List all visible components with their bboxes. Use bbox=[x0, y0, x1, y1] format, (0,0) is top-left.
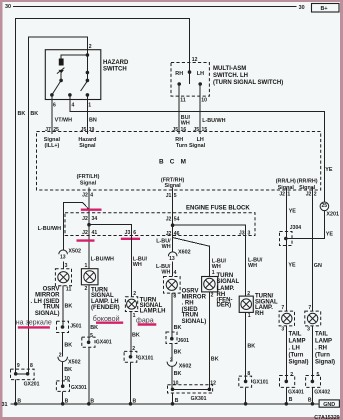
svg-text:YE: YE bbox=[289, 209, 297, 215]
svg-text:SIGNAL): SIGNAL) bbox=[35, 311, 60, 317]
svg-text:J2: J2 bbox=[279, 191, 285, 197]
wire GX101 rear to ground bus bbox=[245, 387, 247, 404]
svg-text:BK: BK bbox=[65, 304, 73, 310]
svg-text:13: 13 bbox=[60, 255, 66, 261]
wire BN hazard pin1 to BCM J5|19 bbox=[87, 95, 96, 134]
wire YE RR/LH: BCM J2|1 to tail lamp LH bbox=[286, 188, 296, 312]
BCM pin J2|2 (RR/RH) Signal bbox=[297, 178, 318, 197]
mirror RH lamp (OSRV MIRROR RH) bbox=[164, 277, 207, 325]
svg-text:J7: J7 bbox=[45, 127, 51, 133]
svg-text:Signal: Signal bbox=[299, 185, 316, 191]
wire FRT/RH: BCM J1|5 through fuse J2|54 to J2|46 bbox=[156, 188, 179, 252]
svg-text:LAMP.LH: LAMP.LH bbox=[140, 308, 166, 314]
connector X602 pin 13 bbox=[168, 250, 190, 262]
svg-text:BK: BK bbox=[18, 111, 26, 117]
svg-text:BK: BK bbox=[247, 344, 255, 350]
svg-text:VT/WH: VT/WH bbox=[55, 118, 72, 124]
russian note фара bbox=[136, 316, 154, 324]
svg-text:MIRROR: MIRROR bbox=[182, 294, 207, 300]
svg-text:13: 13 bbox=[169, 256, 175, 262]
svg-text:3: 3 bbox=[248, 231, 251, 237]
svg-text:3: 3 bbox=[65, 263, 68, 269]
svg-text:2: 2 bbox=[314, 191, 317, 197]
svg-text:16: 16 bbox=[181, 127, 187, 133]
svg-text:7: 7 bbox=[308, 305, 311, 311]
svg-text:8: 8 bbox=[173, 293, 176, 299]
mirror LH lamp (OSRV MIRROR LH) bbox=[30, 269, 71, 317]
svg-text:SWITCH: SWITCH bbox=[103, 67, 127, 73]
svg-text:B: B bbox=[289, 397, 293, 403]
svg-text:GX402: GX402 bbox=[314, 390, 330, 396]
wire X502 to mirror LH pin 3 bbox=[64, 261, 68, 269]
svg-text:WH: WH bbox=[162, 244, 171, 250]
svg-text:YE: YE bbox=[288, 262, 296, 268]
svg-text:J2: J2 bbox=[82, 192, 88, 198]
svg-text:41: 41 bbox=[92, 230, 98, 236]
svg-text:J2: J2 bbox=[166, 217, 172, 223]
svg-text:(ILL+): (ILL+) bbox=[44, 143, 59, 149]
highlighter mark under J2|41 bbox=[77, 239, 95, 241]
fuse block internal bus right (J2|54 junction to J3|3) bbox=[173, 225, 251, 236]
hazard switch box bbox=[45, 44, 129, 99]
wire L-BU/WH J3|3 to turn signal lamp RH bbox=[246, 236, 263, 298]
svg-text:46: 46 bbox=[174, 231, 180, 237]
wire BK bus left (to GX201 pin 9) bbox=[16, 18, 190, 373]
wire BU/WH multi-asm pin11 to BCM J5|16 bbox=[179, 84, 190, 134]
svg-text:X201: X201 bbox=[326, 211, 339, 217]
wire X602 to mirror RH pin 4 bbox=[156, 262, 177, 277]
svg-text:RH: RH bbox=[175, 71, 183, 77]
svg-text:GX301: GX301 bbox=[191, 396, 207, 402]
svg-text:TAIL: TAIL bbox=[315, 332, 328, 338]
svg-text:SIGNAL: SIGNAL bbox=[91, 293, 114, 299]
wire branch to X502 (mirror LH feed) bbox=[38, 202, 89, 250]
svg-text:GX201: GX201 bbox=[24, 381, 40, 387]
ground GX402 bbox=[306, 376, 331, 396]
connector X502 pin 2 bbox=[58, 352, 81, 365]
highlighter underline фара bbox=[138, 323, 157, 325]
svg-text:L-BU/WH: L-BU/WH bbox=[202, 118, 225, 124]
svg-text:GX401: GX401 bbox=[288, 390, 304, 396]
ground GX101 (rear) bbox=[239, 376, 269, 387]
BCM box bbox=[37, 132, 321, 191]
node 31 ground bus bbox=[2, 402, 320, 408]
svg-text:8: 8 bbox=[30, 363, 33, 369]
BCM pin J1|5 (FRT/RH) Signal bbox=[161, 177, 185, 198]
svg-text:SIGNAL): SIGNAL) bbox=[182, 319, 207, 325]
BCM pin J2|4 (FRT/LH) Signal bbox=[77, 174, 100, 198]
svg-text:BK: BK bbox=[64, 367, 72, 373]
wire BK mirror RH pin 8 to J601 bbox=[172, 293, 182, 339]
svg-text:GND: GND bbox=[323, 402, 335, 408]
B+ box bbox=[312, 4, 340, 13]
wire BK J501 to X502 pin 2 bbox=[63, 333, 73, 357]
svg-text:30: 30 bbox=[299, 5, 305, 11]
svg-text:6: 6 bbox=[53, 103, 56, 109]
svg-text:4: 4 bbox=[72, 103, 75, 109]
svg-text:25: 25 bbox=[321, 203, 327, 209]
svg-text:Signal): Signal) bbox=[289, 360, 309, 366]
svg-text:31: 31 bbox=[2, 402, 8, 408]
svg-text:X502: X502 bbox=[68, 360, 81, 366]
wire tail lamp RH to GX402 bbox=[312, 326, 319, 382]
svg-text:(Turn: (Turn bbox=[289, 353, 304, 359]
svg-text:5: 5 bbox=[174, 193, 177, 199]
BCM pin J5|16 RH Turn Signal bbox=[172, 127, 186, 143]
svg-text:5: 5 bbox=[90, 333, 93, 339]
svg-text:Signal): Signal) bbox=[315, 360, 335, 366]
off-page connector X201 (25) bbox=[320, 202, 339, 217]
svg-text:BK: BK bbox=[64, 342, 72, 348]
svg-text:DER): DER) bbox=[217, 303, 232, 309]
svg-text:GX401: GX401 bbox=[96, 339, 112, 345]
svg-text:X502: X502 bbox=[68, 248, 81, 254]
svg-text:34: 34 bbox=[92, 216, 98, 222]
svg-text:4: 4 bbox=[90, 192, 93, 198]
wire BK fender RH pin 2 to GX301 pin 12 bbox=[209, 292, 218, 389]
svg-text:фара: фара bbox=[136, 316, 154, 324]
svg-text:OSRV: OSRV bbox=[43, 286, 60, 292]
wire BK mirror LH pin 11 to J501 bbox=[63, 286, 72, 327]
svg-text:GX101: GX101 bbox=[253, 380, 269, 386]
BCM pin J2|1 (RR/LH) Signal bbox=[276, 178, 296, 197]
wire GX101 to ground bus bbox=[131, 362, 137, 404]
svg-text:9: 9 bbox=[17, 363, 20, 369]
connector X502 pin 13 bbox=[59, 248, 81, 260]
svg-text:(TURN SIGNAL SWITCH): (TURN SIGNAL SWITCH) bbox=[213, 80, 283, 86]
svg-text:19: 19 bbox=[89, 127, 95, 133]
svg-text:7: 7 bbox=[281, 305, 284, 311]
svg-text:YE: YE bbox=[325, 167, 333, 173]
svg-text:SWITCH. LH: SWITCH. LH bbox=[213, 73, 248, 79]
wire YE J304 to X201 bbox=[286, 211, 334, 239]
svg-text:2: 2 bbox=[85, 286, 88, 292]
svg-text:2: 2 bbox=[132, 346, 135, 352]
node 30 B+ top rail bbox=[5, 4, 305, 11]
wire BK J601 to X602 pin 2 bbox=[172, 344, 182, 362]
ground GX301 (rear) bbox=[168, 380, 217, 402]
multi-asm switch box (turn signal switch) bbox=[171, 57, 283, 103]
svg-text:WH: WH bbox=[161, 270, 170, 276]
svg-text:J2: J2 bbox=[166, 231, 172, 237]
wire YE label right of BCM edge bbox=[325, 167, 333, 173]
connector X602 pin 2 bbox=[167, 357, 191, 369]
svg-text:MULTI-ASM: MULTI-ASM bbox=[213, 66, 246, 72]
svg-text:TAIL: TAIL bbox=[289, 332, 302, 338]
wire L-BU/WH J3|6 to turn signal lamp LH bbox=[132, 236, 148, 298]
svg-text:Turn Signal: Turn Signal bbox=[176, 143, 206, 149]
svg-text:J2: J2 bbox=[82, 216, 88, 222]
svg-text:ENGINE FUSE BLOCK: ENGINE FUSE BLOCK bbox=[186, 206, 250, 212]
svg-text:WH: WH bbox=[248, 263, 257, 269]
fender LH turn signal lamp bbox=[81, 263, 119, 311]
wire BK fender LH pin 2 to GX401 bbox=[89, 285, 98, 343]
svg-text:C7A15329: C7A15329 bbox=[314, 415, 339, 420]
wire branch to fender RH lamp bbox=[173, 238, 227, 277]
svg-text:J3: J3 bbox=[125, 230, 131, 236]
svg-text:11: 11 bbox=[66, 286, 72, 292]
highlighter mark over J2|34 bbox=[81, 208, 102, 210]
hazard switch internals bbox=[50, 53, 91, 108]
highlighter mark under J3|6 bbox=[121, 238, 140, 240]
ground GX101 bbox=[124, 351, 153, 362]
fender RH turn signal lamp bbox=[202, 273, 240, 309]
svg-text:J1: J1 bbox=[166, 193, 172, 199]
wire BK X502 to GX301 pin 10 bbox=[63, 362, 72, 387]
svg-text:1: 1 bbox=[287, 191, 290, 197]
wire BK lamp RH to GX101 bbox=[246, 312, 256, 381]
wire GX402 to ground bus bbox=[308, 387, 313, 403]
svg-text:GX101: GX101 bbox=[138, 356, 154, 362]
turn signal lamp LH (rear) bbox=[125, 297, 165, 319]
svg-text:. RH: . RH bbox=[315, 346, 327, 352]
turn signal lamp RH (rear) bbox=[239, 294, 278, 319]
svg-text:J2: J2 bbox=[82, 230, 88, 236]
splice J304 bbox=[280, 225, 302, 246]
svg-text:J304: J304 bbox=[290, 225, 301, 231]
wire FRT/LH: BCM J2|4 through fuse J2|34 to J2|41 bbox=[82, 188, 114, 269]
ground GX201 bbox=[11, 363, 40, 388]
svg-text:11: 11 bbox=[180, 98, 186, 104]
wire RR/RH: BCM J2|2 to tail lamp RH bbox=[312, 188, 322, 312]
svg-text:4: 4 bbox=[174, 270, 177, 276]
svg-text:1: 1 bbox=[212, 270, 215, 276]
wire BK X602 to GX301 pin 10 bbox=[172, 366, 182, 389]
svg-text:1: 1 bbox=[88, 103, 91, 109]
svg-text:MIRROR: MIRROR bbox=[35, 292, 60, 298]
svg-text:30: 30 bbox=[5, 4, 11, 10]
svg-text:L-BU/WH: L-BU/WH bbox=[91, 256, 114, 262]
svg-text:J501: J501 bbox=[70, 323, 81, 329]
wire VT/WH hazard pin6 to BCM J7|25 bbox=[52, 95, 72, 134]
svg-text:12: 12 bbox=[210, 380, 216, 386]
svg-text:BK: BK bbox=[174, 350, 182, 356]
svg-text:B: B bbox=[308, 398, 312, 404]
svg-text:1: 1 bbox=[248, 313, 251, 319]
svg-text:B C M: B C M bbox=[159, 158, 188, 165]
engine fuse block box bbox=[65, 206, 255, 236]
svg-text:15: 15 bbox=[202, 127, 208, 133]
svg-text:(RR/RH): (RR/RH) bbox=[297, 178, 318, 184]
svg-text:BK: BK bbox=[30, 111, 38, 117]
wire L-BU/WH multi-asm pin10 to BCM J5|15 bbox=[200, 84, 225, 134]
fuse block internal bus left (J2|34 junction to J3|6) bbox=[89, 225, 136, 237]
svg-text:B: B bbox=[133, 399, 137, 405]
svg-text:. RH: . RH bbox=[182, 301, 194, 307]
svg-text:BK: BK bbox=[90, 325, 98, 331]
svg-text:(Turn: (Turn bbox=[315, 353, 330, 359]
svg-text:RH: RH bbox=[255, 311, 264, 317]
svg-text:10: 10 bbox=[173, 380, 179, 386]
svg-text:GN: GN bbox=[314, 263, 322, 269]
svg-text:J601: J601 bbox=[178, 338, 189, 344]
svg-text:Signal: Signal bbox=[79, 143, 96, 149]
svg-text:2: 2 bbox=[211, 293, 214, 299]
russian note боковой bbox=[93, 315, 120, 323]
BCM pin J5|15 LH Turn Signal bbox=[176, 127, 207, 149]
svg-text:(FENDER): (FENDER) bbox=[91, 305, 120, 311]
GND box bbox=[319, 400, 339, 408]
svg-text:B: B bbox=[90, 399, 94, 405]
svg-text:GX301: GX301 bbox=[71, 385, 87, 391]
highlighter underline боковой bbox=[96, 322, 123, 324]
ground GX301 bbox=[56, 381, 87, 392]
svg-text:BK: BK bbox=[174, 371, 182, 377]
tail lamp RH (turn signal) bbox=[305, 305, 335, 366]
BCM pin J7|25 Signal (ILL+) bbox=[44, 127, 61, 149]
svg-text:2: 2 bbox=[59, 352, 62, 358]
svg-text:3: 3 bbox=[307, 326, 310, 332]
svg-text:10: 10 bbox=[201, 98, 207, 104]
svg-text:B: B bbox=[175, 398, 179, 404]
svg-text:25: 25 bbox=[53, 127, 59, 133]
svg-text:BK: BK bbox=[132, 332, 140, 338]
svg-text:BK: BK bbox=[174, 325, 182, 331]
svg-text:J2: J2 bbox=[306, 191, 312, 197]
BCM pin J5|19 Hazard Signal bbox=[78, 127, 96, 149]
wire BK lamp LH to GX101 bbox=[131, 312, 140, 357]
svg-text:B+: B+ bbox=[321, 6, 328, 12]
wire GX301 to ground bus bbox=[63, 391, 69, 404]
svg-text:LH: LH bbox=[197, 71, 204, 77]
svg-text:WH: WH bbox=[133, 262, 142, 268]
svg-text:X602: X602 bbox=[178, 250, 191, 256]
wire tail lamp LH to GX401 bbox=[286, 326, 293, 382]
svg-text:YE: YE bbox=[326, 232, 334, 238]
svg-text:BK: BK bbox=[211, 357, 219, 363]
wire GX401 rear to ground bus bbox=[286, 387, 293, 403]
russian note на зеркале bbox=[16, 319, 52, 327]
ground GX401 bbox=[82, 337, 112, 347]
wire BK bus 2 (to GX201 pin 8, feeds hazard pin 2) bbox=[29, 37, 88, 374]
svg-text:SIGNAL: SIGNAL bbox=[217, 279, 240, 285]
splice J501 bbox=[57, 321, 82, 332]
svg-text:TRUN: TRUN bbox=[43, 305, 60, 311]
svg-text:Signal: Signal bbox=[80, 181, 97, 187]
svg-text:WH: WH bbox=[181, 120, 190, 126]
svg-text:J5: J5 bbox=[172, 127, 178, 133]
svg-text:TRUN: TRUN bbox=[182, 313, 199, 319]
highlighter underline на зеркале bbox=[18, 326, 50, 328]
wire GX201 to ground bus bbox=[16, 380, 22, 405]
wire hazard pin4 to off-page connector X201 bbox=[70, 95, 325, 202]
tail lamp LH (turn signal) bbox=[279, 305, 308, 366]
svg-text:3: 3 bbox=[281, 326, 284, 332]
svg-text:2: 2 bbox=[89, 44, 92, 50]
svg-text:(FRT/LH): (FRT/LH) bbox=[77, 174, 100, 180]
document number C7A15329 bbox=[314, 415, 339, 420]
svg-text:LAMP: LAMP bbox=[315, 339, 332, 345]
svg-text:BN: BN bbox=[89, 118, 97, 124]
svg-text:54: 54 bbox=[174, 217, 180, 223]
wire GX401 to ground bus bbox=[89, 347, 95, 404]
svg-text:HAZARD: HAZARD bbox=[103, 60, 129, 66]
svg-text:J5: J5 bbox=[81, 127, 87, 133]
ground GX401 (rear) bbox=[280, 376, 305, 396]
svg-text:L-BU/WH: L-BU/WH bbox=[38, 226, 61, 232]
svg-text:2: 2 bbox=[170, 357, 173, 363]
svg-text:6: 6 bbox=[133, 230, 136, 236]
svg-text:(RR/LH): (RR/LH) bbox=[276, 178, 296, 184]
svg-text:X602: X602 bbox=[179, 364, 192, 370]
svg-text:LAMP: LAMP bbox=[289, 339, 306, 345]
wire GX301 rear to ground bus bbox=[173, 393, 179, 404]
svg-text:на зеркале: на зеркале bbox=[16, 319, 52, 327]
splice J601 bbox=[166, 332, 189, 344]
svg-text:J5: J5 bbox=[193, 127, 199, 133]
svg-text:J3: J3 bbox=[239, 231, 245, 237]
svg-text:. LH: . LH bbox=[289, 346, 300, 352]
